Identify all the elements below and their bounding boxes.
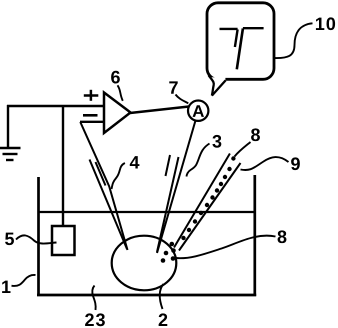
wire junction down to electrode 5 — [62, 106, 64, 226]
electrode 4 main line — [80, 122, 127, 250]
label 10 — [316, 17, 335, 30]
leader 3 — [187, 144, 210, 177]
label 5 — [5, 233, 14, 246]
speech bubble 10 — [207, 3, 274, 80]
label 2 — [159, 313, 168, 326]
pipette 9 right line — [179, 163, 241, 251]
op-amp plus sign — [84, 90, 99, 101]
leader 5 — [16, 235, 57, 243]
ammeter A 7 — [188, 101, 208, 121]
leader 8 right — [176, 236, 276, 259]
label 3 — [212, 135, 221, 148]
label 23 — [85, 313, 105, 326]
leader 1 — [12, 275, 36, 286]
label 7 — [169, 81, 177, 93]
ground — [0, 105, 21, 160]
wire op-amp output to ammeter — [130, 107, 189, 114]
electrode 5 rectangle — [52, 226, 75, 255]
pipette 9 left line — [174, 154, 230, 248]
droplet 2 — [112, 236, 177, 291]
leader 9 — [241, 157, 289, 170]
op-amp minus input wire — [80, 121, 104, 123]
waveform in bubble — [220, 28, 264, 69]
wire ground to op-amp + input — [7, 105, 104, 107]
op-amp U 6 — [104, 93, 131, 134]
electrode 3 main line — [157, 121, 196, 254]
speech bubble tail — [209, 75, 214, 95]
electrode 4 tick — [96, 162, 106, 186]
op-amp minus sign — [83, 114, 98, 117]
leader 7 — [176, 95, 189, 104]
particles 8 at droplet — [161, 242, 176, 263]
particles 8 inside pipette — [181, 156, 235, 240]
label 8 top — [251, 128, 260, 141]
tank 1 walls — [37, 175, 256, 296]
leader 6 — [118, 85, 123, 101]
leader 4 — [112, 163, 125, 189]
label 4 — [130, 156, 140, 168]
leader 10 — [274, 23, 313, 58]
label 9 — [291, 157, 300, 170]
leader 8 top — [235, 142, 251, 157]
label 8 right — [278, 230, 287, 243]
leader 23 — [92, 286, 96, 311]
leader 2 — [160, 284, 164, 309]
label 6 — [111, 71, 120, 84]
liquid surface line — [39, 211, 255, 213]
label 1 — [2, 281, 10, 293]
electrode 3 tick — [166, 155, 171, 176]
electrode 4 second line — [90, 160, 128, 250]
speech bubble tail opening — [211, 77, 226, 82]
electrode 3 second line — [157, 157, 179, 252]
